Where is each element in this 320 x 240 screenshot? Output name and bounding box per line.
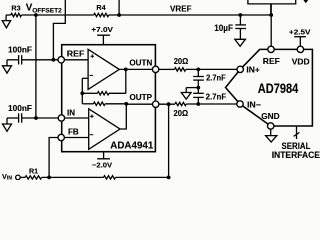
svg-text:VREF: VREF — [170, 4, 192, 14]
wire -in — [82, 77, 88, 79]
wire R2 to OUTP — [116, 176, 169, 178]
svg-text:ADA4941: ADA4941 — [110, 141, 153, 152]
wire top VREF rail — [6, 14, 11, 16]
wire OUTP to 20R — [159, 103, 175, 105]
wire OUTN to 20R — [159, 68, 175, 70]
capacitor C1 100nF — [18, 55, 20, 64]
svg-text:20Ω: 20Ω — [174, 56, 189, 66]
capacitor C5 10uF — [239, 13, 243, 17]
svg-text:FB: FB — [68, 127, 79, 136]
resistor R1 — [20, 176, 25, 178]
pin IN+ — [237, 66, 243, 72]
wire U1B out to OUTP — [120, 104, 126, 129]
svg-text:2.7nF: 2.7nF — [206, 74, 226, 83]
svg-text:100nF: 100nF — [8, 45, 32, 55]
svg-text:OUTN: OUTN — [129, 59, 152, 68]
ground G3 — [3, 66, 12, 73]
pin REF (ADA4941) — [58, 57, 64, 63]
resistor internal R5 — [125, 69, 127, 93]
op-amp U1B — [89, 109, 120, 150]
svg-text:IN+: IN+ — [246, 66, 260, 75]
wire REF jog from top — [53, 0, 65, 60]
wire U1A out to OUTN — [119, 68, 152, 70]
wire OUTP line — [126, 103, 152, 105]
op-amp box ADA4941 — [62, 45, 156, 152]
pin OUTP circle — [153, 101, 159, 107]
resistor R4 — [94, 13, 109, 16]
ground G2 — [235, 39, 246, 46]
svg-text:−2.0V: −2.0V — [92, 161, 113, 170]
wire REF vertical — [270, 4, 272, 46]
capacitor C4 2.7nF — [197, 88, 199, 94]
wire REF to +in — [64, 59, 88, 61]
wire FB jog — [49, 138, 58, 178]
wire OUTP feedback vertical — [168, 104, 170, 177]
capacitor C2 100nF — [7, 117, 19, 119]
ADC AD7984 — [226, 49, 313, 126]
wire R4 stub up — [117, 13, 121, 17]
svg-text:REF: REF — [263, 56, 280, 66]
svg-text:R4: R4 — [96, 3, 105, 12]
wire IN to +in — [65, 117, 89, 119]
svg-text:REF: REF — [67, 49, 85, 58]
resistor R2 — [104, 176, 116, 179]
svg-text:IN: IN — [67, 108, 75, 117]
svg-text:100nF: 100nF — [8, 103, 32, 113]
arrowhead top right — [303, 0, 308, 3]
wire VOFFSET2 to IN — [35, 15, 37, 118]
svg-text:IN−: IN− — [247, 101, 261, 110]
svg-text:GND: GND — [261, 111, 279, 121]
svg-text:R3: R3 — [11, 4, 20, 13]
ground G4 — [6, 118, 8, 124]
pin GND — [268, 123, 274, 129]
pin IN- — [237, 101, 243, 107]
wire to IN+ — [186, 68, 237, 70]
svg-text:R1: R1 — [29, 167, 38, 176]
resistor 20R top — [175, 68, 186, 71]
svg-text:20Ω: 20Ω — [174, 108, 189, 118]
pin VDD — [297, 46, 303, 52]
capacitor C3 2.7nF — [197, 69, 199, 76]
pin FB — [58, 134, 64, 140]
resistor R3 — [11, 13, 22, 16]
pin IN — [58, 115, 64, 121]
svg-text:+7.0V: +7.0V — [91, 27, 113, 34]
svg-text:2.7nF: 2.7nF — [206, 93, 227, 102]
svg-text:VDD: VDD — [292, 56, 310, 66]
ground G1 — [5, 15, 7, 21]
svg-text:AD7984: AD7984 — [258, 81, 299, 97]
wire to IN- — [186, 103, 237, 105]
wire R1 to R2 — [42, 176, 104, 178]
pin OUTN circle — [152, 66, 158, 72]
wire FB to -in — [64, 137, 88, 139]
supply -2.0V — [103, 152, 105, 159]
svg-text:IN: IN — [7, 176, 12, 180]
feedback rail — [81, 78, 83, 104]
resistor 20R bottom — [175, 102, 186, 105]
svg-text:INTERFACE: INTERFACE — [272, 150, 320, 160]
box top right (cropped) — [248, 0, 296, 4]
svg-text:10µF: 10µF — [214, 23, 233, 33]
svg-text:+2.5V: +2.5V — [289, 27, 311, 36]
wire C1 left stub — [7, 59, 19, 61]
wire C1 to REF pin — [22, 59, 59, 61]
ground G6 — [270, 129, 272, 135]
op-amp U1A — [88, 49, 119, 89]
pin REF (AD7984) — [268, 46, 274, 52]
serial interface wire — [296, 126, 298, 139]
svg-text:OUTP: OUTP — [130, 93, 153, 102]
ground G5 mid caps — [186, 87, 198, 89]
resistor internal R6 — [82, 103, 93, 105]
wire C2 to IN pin — [22, 117, 59, 119]
